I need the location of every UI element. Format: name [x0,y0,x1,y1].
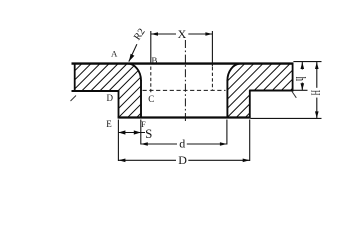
d dimension extensions right [226,120,228,145]
svg-text:D: D [178,153,187,166]
svg-text:B: B [151,55,157,65]
d dimension line [141,143,177,145]
left sheet edge [74,63,76,93]
hatched section: right plate + right collar [227,64,292,117]
S left arrow [118,130,125,134]
plate bottom left [72,90,120,92]
S/d extension below F [140,120,142,145]
hatched section: left plate + left collar [75,64,142,117]
svg-text:R2: R2 [132,27,148,43]
H top arrow [315,62,319,69]
svg-text:S: S [145,126,152,141]
right fillet [227,64,240,81]
left fillet [128,64,142,81]
h dimension line [301,62,303,70]
svg-text:h: h [292,77,309,81]
centerline [184,40,186,123]
right top extension line [293,61,321,63]
X dimension extension line right [211,31,213,67]
D dimension extension right [249,120,251,162]
H bottom arrow [315,111,319,118]
svg-text:A: A [111,49,118,59]
left collar outer wall [118,90,120,117]
h bottom arrow [301,83,305,90]
svg-text:H: H [311,90,324,96]
h top arrow [301,62,305,69]
right sheet edge [292,63,294,92]
collar bottom rim line [118,116,251,118]
right mid extension line (plate bottom) [293,89,307,91]
d left arrow [141,142,148,146]
svg-text:C: C [148,94,154,104]
X right arrow [205,32,212,36]
top surface line [72,62,294,64]
svg-text:E: E [106,119,112,129]
right hole wall [226,80,228,118]
svg-text:D: D [106,93,113,103]
svg-text:X: X [178,27,187,41]
X dimension extension line left [150,31,152,65]
D right arrow [243,159,250,163]
X left arrow [151,32,158,36]
right collar outer wall [249,90,251,117]
svg-text:d: d [179,137,185,151]
stray tick below right plate corner [292,92,296,98]
H dimension line [316,62,318,88]
D left arrow [118,159,125,163]
leader line to fillet [129,44,137,61]
S dimension line [118,132,145,134]
hidden line (mid plane) across hole [143,89,226,91]
S right arrow [134,130,141,134]
plate bottom right [249,90,293,92]
right bottom extension line (collar bottom) [251,117,322,119]
left hole wall [140,80,142,118]
d right arrow [220,142,227,146]
D dimension line [118,159,176,161]
gauge line B dashed [150,67,152,93]
gauge line right dashed [211,67,213,90]
X dimension line [151,33,176,35]
S dimension extension left (shared with D) [117,120,119,162]
stray tick below left plate corner [71,96,77,102]
leader arrowhead [129,54,134,62]
